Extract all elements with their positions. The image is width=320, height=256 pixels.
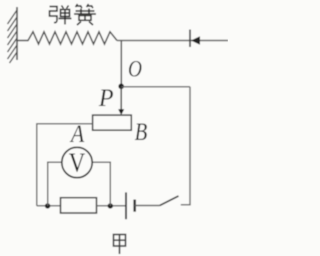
svg-text:V: V xyxy=(69,149,85,178)
svg-text:P: P xyxy=(98,84,114,112)
svg-text:B: B xyxy=(135,117,148,145)
svg-text:A: A xyxy=(69,121,85,149)
svg-text:O: O xyxy=(128,56,142,82)
